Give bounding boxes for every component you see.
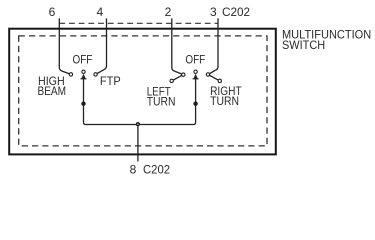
pin 8 wire (down through box) (137, 125, 139, 162)
svg-text:OFF: OFF (185, 53, 205, 67)
pin 2 wire (172, 18, 184, 81)
junction dot on headlamp wiper (81, 102, 85, 106)
svg-text:FTP: FTP (100, 74, 121, 88)
turn signal switch wiper arrow (193, 74, 199, 80)
svg-text:8: 8 (130, 163, 137, 177)
dashed inner box (switch assembly) (19, 36, 267, 146)
contact FTP (pin 4) (94, 73, 97, 76)
svg-text:SWITCH: SWITCH (282, 38, 325, 52)
headlamp switch OFF contact (82, 70, 85, 73)
junction node on bus (pin 8 tap) (137, 123, 140, 126)
connector C202 dashed line (top) (59, 22, 218, 24)
junction dot on turn signal wiper (193, 102, 197, 106)
svg-text:TURN: TURN (210, 94, 239, 108)
turn signal RIGHT lower contact (218, 79, 221, 82)
headlamp switch wiper stem (83, 79, 85, 122)
svg-text:2: 2 (165, 5, 172, 19)
turn signal switch wiper stem (195, 79, 197, 122)
outer solid box (multifunction switch boundary) (9, 29, 276, 155)
pin 6 wire (59, 18, 71, 74)
svg-text:BEAM: BEAM (38, 84, 67, 98)
svg-text:C202: C202 (222, 5, 250, 19)
headlamp switch wiper arrow (81, 74, 87, 80)
pin 4 wire (96, 18, 107, 74)
svg-text:OFF: OFF (73, 52, 93, 66)
turn signal LEFT lower contact (170, 79, 173, 82)
turn signal LEFT upper contact (pin 2) (182, 73, 185, 76)
common bus wire to pin 8 (84, 122, 196, 124)
svg-text:4: 4 (97, 5, 104, 19)
contact HIGH BEAM (pin 6) (69, 73, 72, 76)
turn signal switch OFF contact (194, 70, 197, 73)
svg-text:TURN: TURN (147, 95, 176, 109)
turn signal RIGHT upper contact (pin 3) (206, 73, 209, 76)
pin 3 wire (208, 18, 220, 81)
svg-text:C202: C202 (143, 163, 170, 177)
svg-text:6: 6 (49, 5, 56, 19)
svg-text:3: 3 (210, 5, 217, 19)
